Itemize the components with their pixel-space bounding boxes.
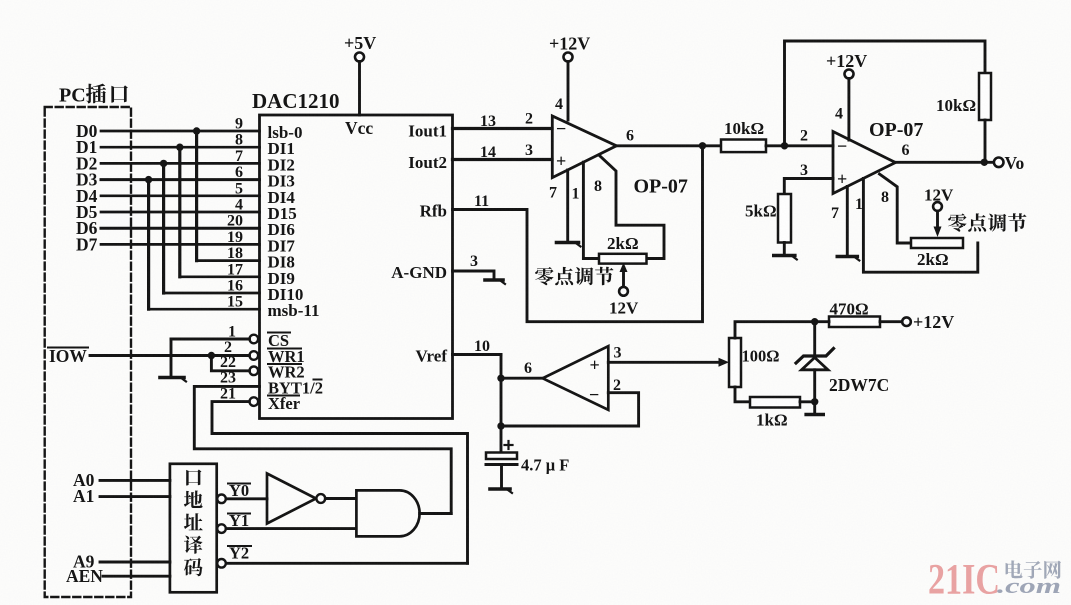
decoder output bubble Y2 [217, 559, 226, 568]
wire +12V pin4 op1 [567, 62, 570, 121]
junction dot zener bottom [811, 398, 818, 405]
wire op3 fb up [785, 41, 986, 146]
wire pin1 op1 [583, 162, 599, 258]
junction dot IOW-WR2 [208, 352, 215, 359]
wire pin3 op3 [784, 179, 833, 195]
potentiometer RP2 2k body [911, 238, 963, 248]
wire CS to ground vertical [170, 339, 173, 377]
pin bubble WR1 [250, 351, 259, 360]
resistor R2 10k body [721, 140, 766, 153]
decoder box 口地址译码 [170, 464, 217, 593]
wire Rfb feedback [453, 146, 703, 322]
wire D2 to DAC [101, 162, 260, 165]
op-amp U3 triangle [833, 132, 896, 194]
wire BYT1/2 [194, 386, 451, 513]
wire R2 to op3 [766, 144, 785, 147]
wire R7 right [800, 400, 815, 403]
power +12V terminal op1 [564, 53, 573, 62]
junction dot op3 in [781, 142, 788, 149]
terminal +12V right [902, 317, 911, 326]
capacitor C1 plus mark [505, 444, 513, 446]
RP1 wiper terminal [619, 287, 628, 296]
wire output op1 [617, 144, 722, 147]
op-amp U2 triangle [552, 116, 616, 178]
ground pin7 op1 [557, 241, 579, 245]
label 零点调节 op3 [948, 213, 966, 231]
wire pin7 op1 [566, 170, 569, 242]
wire inverter to AND [325, 497, 355, 500]
label 零点调节 op1 [535, 267, 553, 285]
terminal Vo [994, 158, 1004, 168]
resistor R4 10k body [979, 73, 991, 120]
wire zener bottom [813, 370, 816, 413]
decoder output bubble Y0 [217, 495, 226, 504]
wire Y2 to Xfer net [228, 562, 468, 565]
wire WR2 branch [211, 356, 249, 371]
junction dot on D1 [176, 144, 183, 151]
PC connector dashed box [45, 107, 131, 597]
wire D1 branch to pin [180, 275, 260, 278]
decoder output bubble Y1 [217, 524, 226, 533]
wire pin8 op1 [600, 156, 664, 259]
junction dot zener top [811, 318, 818, 325]
decoder text 口 [186, 470, 201, 486]
wire +5V to Vcc [358, 62, 361, 116]
wire D1 to DAC [101, 146, 260, 149]
zener diode D1 triangle [802, 358, 829, 370]
capacitor C1 top plate [486, 453, 517, 460]
pin bubble CS [250, 335, 259, 344]
wire R5 top [735, 322, 815, 338]
ground pin7 op3 [837, 255, 857, 259]
scan noise overlay [0, 0, 1, 1]
wire Vref vertical [500, 355, 503, 453]
wire D0 branch to pin [197, 259, 260, 262]
pin bubble Xfer [250, 397, 259, 406]
junction dot on D3 [145, 176, 152, 183]
wire +12V pin4 op3 [847, 79, 850, 141]
ground R3 [774, 254, 795, 258]
wire CS horizontal [171, 338, 250, 341]
inverter U3 [267, 474, 316, 524]
wire D0 branch vertical [195, 131, 198, 261]
wire IOW to WR1 [90, 354, 250, 357]
decoder text 译 [184, 536, 203, 554]
decoder text 地 [184, 491, 203, 509]
power +5V terminal [355, 53, 364, 62]
wire pin1 op3 [863, 178, 977, 272]
wire pin2 op3 [785, 144, 834, 147]
wire U4 out [501, 377, 543, 380]
wire A1 [100, 495, 170, 498]
junction dot op1 out [699, 142, 706, 149]
wire D1 branch vertical [178, 147, 181, 277]
resistor R6 470 body [829, 317, 880, 328]
wire D0 to DAC [101, 130, 260, 133]
wire Xfer [212, 402, 468, 564]
wire R4 down [984, 120, 987, 162]
zener diode D1 cathode [796, 349, 834, 364]
wire pin3 U4 arrow [608, 361, 722, 364]
wire A0 [100, 479, 170, 482]
wire R3 to gnd [783, 243, 786, 255]
wire pin2 U4 [501, 393, 639, 426]
decoder text 码 [184, 558, 203, 576]
resistor R5 100 body [729, 338, 741, 387]
wire C1 to gnd [500, 465, 503, 489]
resistor R7 1k body [750, 397, 800, 408]
wire R6 left [815, 320, 829, 323]
RP2 wiper terminal [933, 202, 942, 211]
wire pin8 op3 [880, 174, 912, 243]
wire D2 branch to pin [164, 292, 260, 295]
wire R6 right [880, 320, 902, 323]
junction dot Vref buffer [497, 375, 504, 382]
wire Y1 to AND [226, 527, 356, 530]
junction dot on D2 [160, 160, 167, 167]
wire Iout1 [453, 127, 553, 130]
wire D3 branch to pin [149, 308, 260, 311]
resistor R3 5k body [778, 194, 791, 243]
junction dot Vref fb [497, 422, 504, 429]
ground zener [806, 413, 823, 417]
AND gate U4 [356, 490, 419, 536]
RP2 wiper arrow [936, 211, 939, 226]
ground C1 [490, 487, 510, 491]
RP1 wiper arrow [622, 268, 625, 287]
wire D4 to DAC [101, 194, 260, 197]
decoder text 址 [184, 513, 203, 530]
capacitor C1 bottom plate [486, 463, 517, 466]
wire A9 [100, 561, 170, 564]
junction dot op3 out [981, 159, 988, 166]
wire Iout2 [453, 158, 553, 161]
wire D7 to DAC [101, 243, 260, 246]
wire A-GND [453, 271, 495, 279]
wire D3 branch vertical [147, 180, 150, 310]
wire Y0 to inverter [226, 497, 267, 500]
wire Vref [453, 353, 502, 356]
wire R5 bottom [735, 387, 750, 402]
wire zener top [813, 322, 816, 357]
ground at A-GND [485, 278, 503, 282]
wire output op3 [896, 161, 995, 164]
wire D2 branch vertical [162, 163, 165, 293]
watermark dianziwang [1006, 560, 1023, 578]
potentiometer RP1 2k body [599, 254, 647, 264]
wire AND output [420, 512, 452, 515]
IC U1 DAC1210 body [260, 115, 453, 419]
wire AEN [103, 575, 170, 578]
ground at CS [160, 376, 184, 380]
junction dot on D0 [193, 127, 200, 134]
pin bubble WR2 [250, 367, 259, 376]
inverter bubble [316, 494, 325, 503]
wire D3 to DAC [101, 178, 260, 181]
wire D6 to DAC [101, 227, 260, 230]
power +12V terminal op3 [845, 70, 854, 79]
wire pin7 op3 [846, 186, 849, 255]
wire D5 to DAC [101, 211, 260, 214]
op-amp U4 triangle [543, 346, 609, 410]
